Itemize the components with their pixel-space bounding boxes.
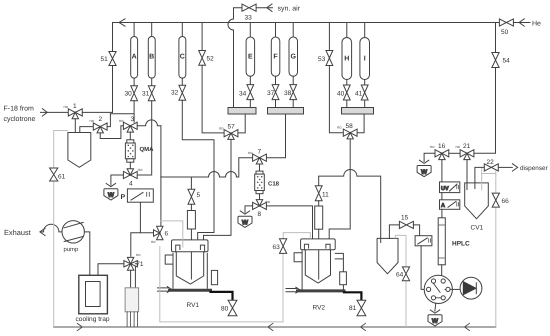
wire gray vent branch into RV1 lid (160, 221, 183, 248)
wire vessel E to valve 34 (249, 76, 251, 84)
wire vessel A riser (133, 23, 135, 37)
wire valve 37 to manifold box FG (275, 100, 277, 108)
svg-text:W: W (242, 220, 249, 227)
column tube above RV2 (315, 206, 323, 229)
valve 53 (326, 51, 333, 66)
valve 80 (228, 300, 237, 315)
valve 15 (399, 221, 413, 228)
wire syn air inlet to valve 33 (256, 7, 272, 9)
box P sensor (127, 189, 153, 202)
svg-text:32: 32 (171, 90, 179, 97)
reactor RV2 body (294, 251, 343, 289)
svg-text:A: A (132, 54, 137, 61)
svg-text:51: 51 (101, 56, 109, 63)
wire valve 71 bottom to adsorber box (130, 270, 132, 288)
wire vessel H to valve 40 (346, 80, 348, 86)
valve 2 (93, 123, 107, 133)
svg-text:HPLC: HPLC (452, 241, 470, 248)
vessel A (131, 37, 138, 79)
wire gray valve 66 to bus (495, 207, 497, 327)
wire He inlet line (496, 22, 531, 24)
valve 11 (315, 186, 322, 201)
pump vacuum (62, 221, 84, 243)
wire valve 71 left port to cooling trap (98, 264, 124, 287)
wire valve 57 bottom to RV1 lid (204, 139, 232, 247)
svg-text:no: no (248, 150, 253, 155)
svg-text:dispenser: dispenser (520, 165, 549, 172)
column HPLC (438, 218, 445, 265)
node exhaust arrow (40, 228, 45, 235)
vessel I (360, 38, 370, 80)
svg-text:61: 61 (58, 174, 66, 181)
wire vessel C riser (181, 23, 183, 37)
waste symbol W4 (428, 315, 442, 326)
svg-text:3: 3 (131, 116, 135, 123)
reactor RV2 inner vessel (305, 250, 330, 283)
wire dip tube into RV2 cone (318, 229, 320, 279)
svg-text:37: 37 (267, 90, 275, 97)
valve 54 (492, 53, 499, 68)
wire QMA column to valve 4 (129, 162, 131, 169)
wire header valve 71 to valve 6 left port (131, 233, 153, 257)
svg-text:57: 57 (228, 124, 236, 131)
wire valve 30 down to T junction (133, 101, 135, 114)
waste symbol W1 (104, 189, 118, 200)
wire valve 7 to C18 column (259, 164, 261, 171)
column tube above RV1 (187, 211, 195, 230)
svg-text:He: He (532, 21, 541, 28)
valve 52 (199, 51, 206, 66)
wire vessel B riser (151, 23, 153, 37)
reactor RV1 lid (172, 240, 209, 252)
svg-text:F-18 from: F-18 from (4, 105, 35, 113)
svg-text:no: no (138, 167, 143, 172)
svg-text:QMA: QMA (140, 146, 155, 153)
wire valve 8 right port to RV2 lid (266, 206, 312, 248)
svg-text:53: 53 (318, 56, 326, 63)
waste symbol W2 (238, 216, 252, 227)
node bus arrow left near injection valve (465, 323, 470, 330)
svg-text:no: no (430, 144, 435, 149)
wire UV to A detector (441, 193, 443, 200)
manifold box E (228, 108, 256, 115)
svg-text:P: P (121, 194, 126, 201)
svg-text:pump: pump (64, 247, 79, 253)
node bus arrow left near valve 64 (361, 323, 366, 330)
svg-text:50: 50 (501, 29, 509, 36)
wire valve 15 to sensor box (413, 225, 419, 236)
wire valve 8 left port to waste W2 (245, 206, 253, 212)
column QMA (125, 140, 135, 162)
vessel adsorber cartridge (125, 288, 139, 312)
wire P box down to valve 6 header (139, 202, 141, 233)
svg-text:G: G (290, 54, 296, 61)
svg-text:no: no (64, 104, 69, 109)
svg-text:UV: UV (441, 186, 449, 192)
node arrow into W3 (419, 160, 428, 163)
svg-text:31: 31 (142, 91, 150, 98)
wire trap vessel to valve 2 left port (80, 127, 94, 133)
valve 6 (154, 226, 164, 239)
node bus arrow left near RV2 (268, 323, 273, 330)
svg-text:54: 54 (503, 58, 511, 65)
valve 3 (123, 122, 137, 132)
svg-text:80: 80 (221, 306, 229, 313)
wire vessel F riser (275, 23, 277, 38)
svg-text:4: 4 (129, 181, 133, 188)
wire valve 34 to manifold box E (249, 100, 251, 108)
valve 38 (290, 85, 297, 100)
wire CV1 to valve 22 (475, 167, 484, 188)
wire valve 71 right port elbow to adsorber box (135, 264, 137, 288)
valve 51 (109, 52, 116, 66)
valve 81 (357, 300, 366, 315)
svg-text:no: no (151, 239, 156, 244)
wire vessel C to valve 32 (181, 78, 183, 85)
svg-text:40: 40 (337, 91, 345, 98)
wire vessel I to valve 41 (364, 80, 366, 86)
wire valve 53 riser (328, 23, 330, 51)
wire HPLC column to injection valve (441, 265, 443, 279)
svg-text:41: 41 (355, 91, 363, 98)
wire valve 16 to valve 21 (449, 152, 460, 154)
reactor RV1 side block (211, 270, 217, 284)
node arrow into W4 (430, 310, 439, 313)
node arrow into W1 (106, 184, 115, 187)
svg-text:5: 5 (197, 192, 201, 199)
wire vessel H riser (346, 23, 348, 38)
wire valve 16 bottom to UV detector (441, 160, 443, 182)
svg-text:RV1: RV1 (187, 302, 200, 309)
wire vessel V2 to valve 15 (389, 225, 399, 239)
valve 50 (499, 19, 513, 26)
wire vessel B to valve 31 (151, 78, 153, 86)
valve 34 (247, 85, 254, 100)
wire pump suction to cooling trap (84, 232, 89, 287)
svg-text:no: no (136, 252, 141, 257)
vessel C (179, 37, 186, 79)
wire manifold FG outlet to valve 7 right port (267, 114, 286, 158)
svg-text:66: 66 (502, 198, 510, 205)
wire main top manifold line (113, 22, 496, 24)
wire valve 11 top elbow with jump to vessel V2 dip tube (319, 170, 381, 243)
svg-text:no: no (266, 199, 271, 204)
svg-text:H: H (344, 56, 349, 63)
wire manifold HI outlet to valve 58 right port (357, 114, 364, 133)
valve 22 (484, 164, 498, 171)
wire bottom exhaust bus (54, 326, 496, 328)
wire valve 1 dip tube into trap vessel (74, 119, 76, 138)
vessel cooling trap inner (86, 282, 101, 307)
vessel F (271, 37, 280, 76)
wire manifold E outlet to valve 57 right port (238, 114, 245, 133)
wire valve 2 right port up to header (107, 114, 110, 127)
wire valve 53 down to valve 58 left port (329, 66, 343, 133)
wire bridge down to T junction of transfer header (160, 126, 162, 177)
svg-text:C18: C18 (268, 180, 280, 187)
wire gray CV1 vent tee (482, 168, 496, 193)
svg-text:33: 33 (245, 15, 253, 22)
wire injection valve bottom to waste W4 (434, 303, 437, 311)
vessel H (342, 38, 352, 80)
valve 58 (343, 129, 357, 139)
valve 32 (179, 85, 186, 100)
svg-text:81: 81 (349, 305, 357, 312)
wire valve 52 to valve 57 left port (202, 65, 224, 133)
wire RV2 drain black line to valve 81 (344, 292, 361, 300)
wire valve 16 left port to waste W3 (424, 153, 435, 161)
box A detector (440, 200, 460, 210)
manifold box FG (268, 108, 304, 115)
wire C18 column to valve 8 (259, 194, 261, 200)
valve 16 (435, 150, 449, 160)
svg-text:71: 71 (136, 261, 144, 268)
svg-text:1: 1 (73, 103, 77, 110)
svg-text:38: 38 (284, 90, 292, 97)
wire RV1 drain black line to valve 80 (211, 292, 233, 300)
wire valve 2 bottom loop to valve 3 left port (100, 126, 123, 139)
svg-text:W: W (421, 169, 428, 176)
wire right riser from top line through valve 54 to valve 21 (495, 23, 497, 53)
node RV2 purge arrow (286, 287, 300, 293)
vessel E (246, 37, 255, 76)
wire valve 31 down to valve 4 right elbow (137, 101, 152, 175)
svg-text:no: no (90, 118, 95, 123)
reactor RV2 side block (340, 272, 347, 285)
valve 33 (242, 4, 256, 11)
valve 40 (343, 85, 350, 100)
svg-text:RV2: RV2 (313, 304, 326, 311)
wire valve 5 to tube column RV1 (190, 204, 192, 210)
svg-text:11: 11 (322, 192, 329, 199)
svg-text:W: W (108, 192, 115, 199)
svg-text:cyclotrone: cyclotrone (4, 115, 36, 123)
vessel V2 collection vial (377, 238, 398, 273)
wire valve 4 left port to waste W1 (111, 175, 124, 185)
svg-text:30: 30 (125, 91, 133, 98)
injection valve (424, 275, 452, 303)
valve 8 (253, 200, 267, 210)
wire sensor box to injection valve left port (421, 246, 426, 290)
valve 30 (131, 86, 138, 101)
svg-text:no: no (337, 125, 342, 130)
wire valve 54 down to valve 21 right elbow (474, 68, 496, 154)
wire vessel G to valve 38 (292, 76, 294, 84)
wire vessel I riser (364, 23, 366, 38)
wire injection valve to HPLC pump (450, 288, 460, 290)
svg-text:6: 6 (165, 231, 169, 238)
wire vessel F to valve 37 (275, 76, 277, 84)
wire valve 38 to manifold box FG (292, 100, 294, 108)
valve 7 (253, 154, 267, 164)
wire valve 33 down with line jump to manifold box E (228, 8, 242, 108)
svg-text:syn. air: syn. air (278, 4, 301, 12)
svg-text:21: 21 (463, 143, 471, 150)
wire dip tube into RV1 cone (190, 229, 192, 279)
valve 31 (148, 86, 155, 101)
svg-text:64: 64 (396, 272, 404, 279)
wire valve 52 riser (201, 23, 203, 51)
svg-text:63: 63 (273, 244, 281, 251)
wire vessel A to valve 30 (133, 78, 135, 86)
valve 63 (280, 239, 287, 254)
svg-text:8: 8 (258, 211, 262, 218)
wire valve 22 to dispenser (498, 166, 512, 168)
wire transfer header with jumps to valve 7 (161, 158, 253, 177)
valve 71 (124, 257, 137, 270)
valve 57 (224, 130, 238, 140)
vessel CV1 (465, 183, 489, 219)
svg-text:34: 34 (239, 91, 247, 98)
wire valve 51 to valve 1 line (112, 66, 114, 113)
wire vessel E riser (249, 23, 251, 38)
node RV1 purge arrow (158, 287, 172, 293)
node F-18 inlet arrow (42, 109, 47, 116)
wire valve 3 right port bridge over vessel B line (137, 120, 161, 126)
svg-text:W: W (432, 318, 439, 325)
wire valve 41 to manifold box HI (364, 100, 366, 108)
wire vessel G riser (292, 23, 294, 38)
svg-text:A: A (441, 203, 445, 209)
valve 41 (361, 85, 368, 100)
svg-text:15: 15 (401, 215, 409, 222)
svg-text:Exhaust: Exhaust (4, 228, 31, 237)
valve 66 (492, 193, 499, 207)
svg-text:E: E (248, 54, 253, 61)
svg-text:F: F (273, 54, 278, 61)
valve 1 (68, 109, 82, 119)
vessel G (289, 37, 298, 76)
wire valve 58 bottom to RV2 lid (329, 139, 350, 248)
vessel F18 trap (68, 133, 91, 168)
valve 4 (123, 169, 137, 179)
wire header from valve 2 to valve 30 line and down to valve 3 (110, 114, 134, 122)
wire vessel C line to RV1 top right port (182, 100, 214, 250)
svg-text:58: 58 (346, 123, 354, 130)
column C18 (255, 171, 265, 194)
reactor RV1 bottom plate (170, 289, 211, 292)
wire adsorber tubes to bus (127, 312, 138, 327)
svg-text:no: no (456, 144, 461, 149)
reactor RV2 bottom plate (298, 289, 345, 292)
valve 21 (460, 150, 474, 160)
wire valve 40 to manifold box HI (346, 100, 348, 108)
svg-text:2: 2 (99, 116, 103, 123)
reactor RV1 inner vessel (176, 252, 203, 284)
wire gray vessel V2 vent to valve 64 (395, 235, 406, 267)
wire A detector to HPLC column (441, 209, 443, 218)
svg-text:22: 22 (487, 159, 495, 166)
svg-text:B: B (149, 54, 154, 61)
wire F-18 inlet line (41, 111, 69, 113)
wire gray vent from trap vessel to bus (54, 131, 68, 328)
node bus arrow right at cooling trap (77, 323, 82, 330)
node dispenser arrow (512, 164, 517, 171)
svg-text:7: 7 (258, 149, 262, 156)
valve 61 (50, 168, 58, 181)
valve 5 (188, 189, 195, 204)
wire valve 11 to tube column RV2 (318, 201, 320, 206)
svg-text:52: 52 (207, 56, 215, 63)
vessel cooling trap outer (79, 275, 108, 314)
waste symbol W3 (417, 166, 431, 177)
node arrow into W2 (240, 211, 249, 214)
vessel B (148, 37, 155, 79)
node flow arrow left on top line (119, 19, 125, 26)
wire gray enclosure RV1 to valve 63 (160, 246, 283, 322)
wire valve 3 to QMA column (129, 132, 131, 140)
svg-text:no: no (219, 126, 224, 131)
reactor RV1 body (165, 253, 207, 288)
wire gray valve 64 to bus (405, 281, 407, 327)
svg-text:I: I (364, 56, 366, 63)
wire exhaust curve and arrow (41, 224, 62, 232)
svg-text:16: 16 (438, 143, 446, 150)
node syn air arrow (267, 4, 272, 11)
pump HPLC (460, 277, 482, 299)
box pressure sensor HPLC (415, 236, 432, 246)
reactor RV2 lid (301, 239, 336, 250)
svg-text:no: no (119, 118, 124, 123)
wire valve 6 top line from transfer header T (160, 177, 162, 226)
wire valve 1 right port to riser (82, 111, 112, 113)
wire valve 5 branch riser (190, 177, 192, 189)
wire gray valve 63 to RV2 lid vent (283, 233, 310, 239)
svg-text:cooling trap: cooling trap (76, 316, 110, 323)
node He arrow (519, 19, 524, 26)
svg-text:C: C (180, 54, 185, 61)
wire left riser from top line to valve 51 (112, 23, 114, 52)
valve 64 (402, 267, 409, 281)
box UV detector (440, 182, 460, 193)
wire valve 21 bottom dip into CV1 (466, 160, 468, 190)
svg-text:CV1: CV1 (471, 225, 484, 232)
valve 37 (272, 85, 279, 100)
manifold box HI (342, 108, 374, 115)
